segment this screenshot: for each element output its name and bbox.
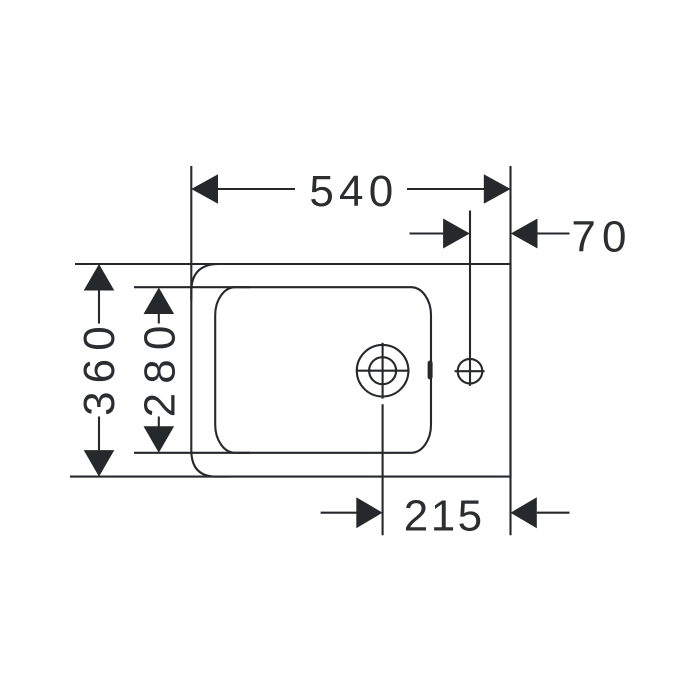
dim 540 left arrow: [191, 174, 218, 204]
svg-text:70: 70: [571, 213, 632, 262]
svg-text:215: 215: [404, 492, 485, 541]
dim 70 right arrow: [511, 219, 538, 249]
basin top extension line: [134, 286, 250, 288]
faucet hole outer circle: [357, 345, 409, 397]
top edge extension line: [75, 263, 230, 265]
dim 540 line right: [407, 188, 509, 190]
faucet hole inner circle: [369, 357, 396, 384]
fixing hole centerline from 70 dim: [469, 211, 471, 386]
dim 280 up arrow: [144, 288, 175, 315]
right vertical extension line: [509, 166, 511, 535]
fixing hole crosshair horizontal: [455, 370, 485, 372]
bottom edge extension line: [70, 476, 230, 478]
dim 360 shaft bottom: [98, 417, 100, 453]
left vertical extension line: [190, 166, 192, 300]
dim 360 up arrow: [84, 264, 115, 291]
dim 70 left arrow: [443, 219, 470, 249]
dim 70 tail left: [410, 232, 445, 234]
dim 70 tail right: [538, 232, 570, 234]
dim 540 right arrow: [484, 174, 511, 204]
faucet crosshair horizontal: [356, 370, 410, 372]
dim 215 tail right: [537, 512, 570, 514]
svg-text:280: 280: [136, 316, 185, 417]
fixing hole circle: [458, 359, 483, 384]
svg-text:360: 360: [75, 318, 124, 416]
dim 360 down arrow: [84, 450, 115, 477]
svg-text:540: 540: [309, 167, 398, 216]
faucet centerline down to 215 dim: [382, 404, 384, 535]
water inlet notch on basin edge: [428, 361, 433, 380]
dim 540 line left: [193, 188, 295, 190]
dim 215 tail left: [321, 512, 357, 514]
dim 280 shaft bottom: [158, 417, 160, 429]
dim 215 left arrow: [356, 497, 382, 528]
inner basin outline: [215, 287, 431, 453]
dim 280 down arrow: [144, 426, 175, 453]
dim 280 shaft top: [158, 312, 160, 324]
faucet crosshair vertical: [382, 343, 384, 399]
basin bottom extension line: [134, 452, 250, 454]
bidet outer body outline: [191, 264, 510, 477]
dim 215 right arrow: [511, 497, 537, 528]
dim 360 shaft top: [98, 288, 100, 324]
